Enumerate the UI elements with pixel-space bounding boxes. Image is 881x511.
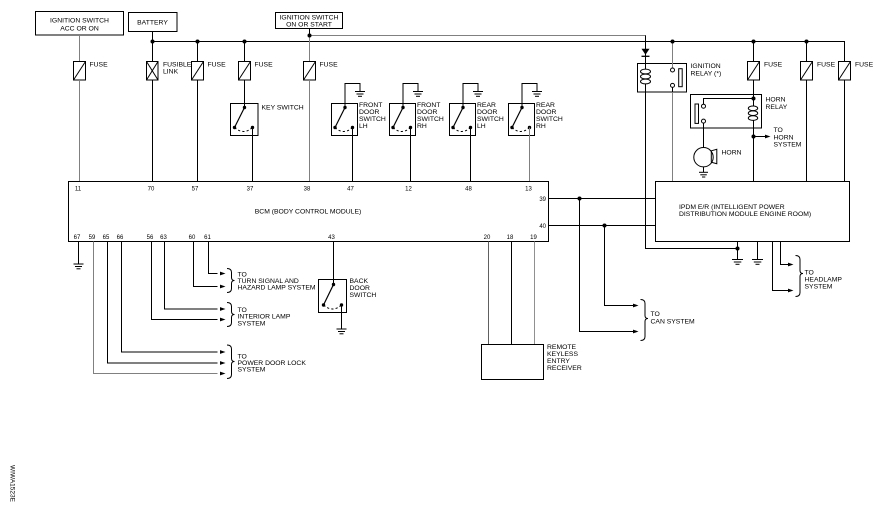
svg-text:DISTRIBUTION MODULE ENGINE ROO: DISTRIBUTION MODULE ENGINE ROOM): [679, 211, 811, 218]
fuse F1: [74, 62, 86, 81]
wire F2 to BCM pin 57: [197, 80, 199, 182]
wire BCM pin 39 to IPDM: [549, 198, 656, 200]
svg-text:LH: LH: [359, 123, 368, 130]
key switch box: [231, 104, 259, 136]
brace headlamp group: [796, 256, 804, 297]
svg-text:FUSE: FUSE: [320, 62, 339, 69]
svg-text:37: 37: [247, 187, 254, 193]
svg-text:48: 48: [465, 187, 472, 193]
horn relay internal wire: [704, 99, 754, 105]
key switch contacts: [233, 106, 254, 129]
svg-text:HAZARD LAMP SYSTEM: HAZARD LAMP SYSTEM: [238, 285, 316, 292]
wire ignition on/start branch to ignition relay: [310, 36, 646, 64]
rear door switch LH box: [450, 104, 476, 136]
wire on/start down through bus to fuse F4: [309, 29, 311, 36]
svg-text:IGNITION SWITCH: IGNITION SWITCH: [280, 15, 339, 22]
svg-text:38: 38: [304, 187, 311, 193]
wire rear door switch LH to BCM pin 48: [470, 128, 472, 182]
svg-text:13: 13: [525, 187, 532, 193]
wire F1 to BCM pin 11: [79, 80, 81, 182]
wire from acc box to fuse F1: [79, 35, 81, 62]
wire bus to fuse F3: [244, 42, 246, 62]
wire F5 to horn relay: [753, 80, 755, 99]
arrowheads headlamp: [788, 263, 794, 293]
wire front door switch RH to BCM pin 12: [410, 128, 412, 182]
rear door switch RH box: [509, 104, 535, 136]
wire pin40 branch to CAN: [605, 226, 635, 306]
svg-text:11: 11: [75, 187, 82, 193]
wire BCM pin 59 to power door lock: [94, 242, 218, 374]
svg-text:DOOR: DOOR: [359, 109, 379, 116]
svg-text:DOOR: DOOR: [417, 109, 437, 116]
svg-text:57: 57: [192, 187, 199, 193]
horn relay box: [691, 95, 762, 129]
brace power door lock group: [227, 345, 235, 379]
svg-text:FUSE: FUSE: [764, 62, 783, 69]
wire F6 to IPDM: [806, 80, 808, 182]
svg-text:18: 18: [507, 235, 514, 241]
arrowheads left groups: [220, 272, 226, 376]
fusible link: [147, 62, 159, 81]
BCM pin numbers: [74, 187, 547, 242]
svg-text:19: 19: [530, 235, 537, 241]
ignition relay box: [638, 64, 687, 93]
ignition relay coil: [645, 64, 647, 70]
ground horn: [703, 167, 705, 172]
front door switch RH box: [390, 104, 416, 136]
svg-text:SYSTEM: SYSTEM: [774, 142, 802, 149]
svg-text:ENTRY: ENTRY: [547, 358, 570, 365]
wire battery down: [152, 32, 154, 62]
wire BCM pin 20 to receiver: [488, 242, 490, 345]
svg-text:REAR: REAR: [536, 102, 555, 109]
svg-text:65: 65: [103, 235, 110, 241]
svg-text:HORN: HORN: [722, 149, 742, 156]
wire IPDM to headlamp top: [781, 242, 790, 265]
svg-text:67: 67: [74, 235, 81, 241]
ground rear door switch RH: [522, 84, 537, 108]
svg-text:WIWA1523E: WIWA1523E: [9, 465, 16, 503]
wire BCM pin 43 to back door switch: [333, 242, 335, 285]
brace turn signal group: [227, 269, 235, 293]
wire BCM pin 66 to power door lock: [122, 242, 218, 353]
svg-text:FUSE: FUSE: [255, 62, 274, 69]
wire BCM pin 65 to power door lock: [108, 242, 218, 364]
wire F3 to key switch: [244, 80, 246, 108]
svg-text:KEY SWITCH: KEY SWITCH: [262, 105, 304, 112]
svg-text:ON OR START: ON OR START: [286, 22, 332, 29]
box battery: [129, 13, 178, 32]
brace interior lamp group: [227, 303, 235, 327]
brace CAN group: [641, 300, 649, 341]
svg-text:56: 56: [147, 235, 154, 241]
wire ignition relay contact to IPDM: [672, 92, 674, 182]
svg-text:TO: TO: [805, 270, 814, 277]
junction dot horn system: [752, 135, 756, 139]
svg-text:HORN: HORN: [774, 134, 794, 141]
svg-text:KEYLESS: KEYLESS: [547, 351, 578, 358]
wire horn relay to horn: [703, 128, 705, 148]
svg-text:63: 63: [160, 235, 167, 241]
junction dot horn relay top: [752, 97, 756, 101]
wire BCM pin 61 to turn signal: [209, 242, 218, 274]
svg-text:47: 47: [347, 187, 354, 193]
diode triangle: [642, 49, 650, 55]
svg-text:SWITCH: SWITCH: [477, 116, 504, 123]
svg-text:60: 60: [189, 235, 196, 241]
ground rear door switch LH: [463, 84, 478, 108]
box ignition switch acc or on: [36, 12, 124, 36]
svg-text:REAR: REAR: [477, 102, 496, 109]
svg-text:20: 20: [484, 235, 491, 241]
svg-text:BCM (BODY CONTROL MODULE): BCM (BODY CONTROL MODULE): [255, 209, 362, 216]
ground back door switch: [341, 305, 343, 329]
svg-text:SWITCH: SWITCH: [359, 116, 386, 123]
svg-text:CAN SYSTEM: CAN SYSTEM: [651, 318, 696, 325]
svg-text:FRONT: FRONT: [359, 102, 382, 109]
ground front door switch RH: [403, 84, 418, 108]
front door switch LH box: [332, 104, 358, 136]
svg-text:SWITCH: SWITCH: [417, 116, 444, 123]
fuse F6: [801, 62, 813, 81]
wire BCM pin 40 to IPDM: [549, 225, 656, 227]
svg-text:TO: TO: [651, 311, 660, 318]
svg-text:IPDM E/R (INTELLIGENT POWER: IPDM E/R (INTELLIGENT POWER: [679, 204, 785, 211]
ground BCM pin 67: [78, 242, 80, 265]
horn relay contact: [702, 104, 706, 108]
wire fusible link to BCM pin 70: [152, 80, 154, 182]
svg-text:LH: LH: [477, 123, 486, 130]
svg-text:FUSE: FUSE: [855, 62, 874, 69]
svg-text:12: 12: [405, 187, 412, 193]
back door switch box: [319, 280, 347, 313]
junction dots CAN: [578, 197, 639, 334]
wire bus to fuse F6: [806, 42, 808, 62]
svg-text:DOOR: DOOR: [477, 109, 497, 116]
junction dots bus: [151, 34, 809, 44]
bus battery horizontal: [153, 42, 845, 62]
svg-text:59: 59: [89, 235, 96, 241]
wire front door switch LH to BCM pin 47: [352, 128, 354, 182]
svg-text:SWITCH: SWITCH: [350, 292, 377, 299]
wire bus to fuse F5: [753, 42, 755, 62]
svg-text:IGNITION SWITCH: IGNITION SWITCH: [50, 18, 109, 25]
svg-text:RH: RH: [536, 123, 546, 130]
horn: [694, 148, 713, 167]
wire bus to fuse F2: [197, 42, 199, 62]
remote keyless entry receiver box: [482, 345, 544, 380]
box ignition switch on or start: [276, 13, 343, 29]
arrowhead to horn system: [765, 135, 771, 139]
fuse F5: [748, 62, 760, 81]
svg-text:LINK: LINK: [163, 68, 179, 75]
svg-text:FRONT: FRONT: [417, 102, 440, 109]
svg-text:RECEIVER: RECEIVER: [547, 365, 582, 372]
svg-text:SYSTEM: SYSTEM: [805, 284, 833, 291]
wire BCM pin 18 to receiver: [511, 242, 513, 345]
wire rear door switch RH to BCM pin 13: [529, 128, 531, 182]
wire horn relay coil to IPDM: [753, 128, 755, 182]
svg-text:RH: RH: [417, 123, 427, 130]
wire key switch to BCM pin 37: [252, 128, 254, 182]
svg-text:SYSTEM: SYSTEM: [238, 367, 266, 374]
svg-text:RELAY: RELAY: [766, 104, 788, 111]
wire pin39 branch to CAN: [580, 199, 635, 332]
fuse F3: [239, 62, 251, 81]
wire BCM pin 56 to interior lamp: [152, 242, 218, 320]
svg-text:HEADLAMP: HEADLAMP: [805, 277, 843, 284]
fuse F7: [839, 62, 851, 81]
svg-text:BATTERY: BATTERY: [137, 20, 168, 27]
IPDM ground 2: [757, 242, 759, 260]
svg-text:43: 43: [328, 235, 335, 241]
wire BCM pin 63 to interior lamp: [165, 242, 218, 310]
svg-text:FUSE: FUSE: [90, 62, 109, 69]
wire IPDM to headlamp bottom: [773, 242, 790, 291]
svg-text:TO: TO: [774, 127, 783, 134]
wire ignition relay coil to ground join: [646, 92, 738, 249]
svg-text:DOOR: DOOR: [536, 109, 556, 116]
fuse F4: [304, 62, 316, 81]
svg-text:IGNITION: IGNITION: [691, 63, 721, 70]
diode arrow to ignition relay: [645, 36, 647, 64]
svg-text:RELAY (*): RELAY (*): [691, 70, 722, 77]
horn relay coil: [753, 99, 755, 107]
svg-text:61: 61: [204, 235, 211, 241]
svg-text:40: 40: [539, 224, 546, 230]
svg-text:SWITCH: SWITCH: [536, 116, 563, 123]
svg-text:REMOTE: REMOTE: [547, 344, 577, 351]
svg-text:FUSE: FUSE: [208, 62, 227, 69]
wire F7 to IPDM: [844, 80, 846, 182]
BCM box: [69, 182, 549, 242]
ignition relay contact: [672, 42, 674, 69]
wire F4 to BCM pin 38: [309, 80, 311, 182]
svg-text:70: 70: [148, 187, 155, 193]
svg-text:ACC OR ON: ACC OR ON: [60, 26, 99, 33]
wire BCM pin 60 to turn signal: [194, 242, 218, 287]
svg-text:39: 39: [539, 197, 546, 203]
fuse F2: [192, 62, 204, 81]
IPDM ground 1: [737, 242, 739, 260]
wire to horn system arrow: [754, 136, 767, 138]
svg-text:HORN: HORN: [766, 97, 786, 104]
junction dot IPDM ground: [736, 247, 740, 251]
IPDM E/R box: [656, 182, 850, 242]
svg-text:66: 66: [117, 235, 124, 241]
ground front door switch LH: [345, 84, 360, 108]
wire BCM pin 19 to receiver: [534, 242, 536, 345]
svg-text:FUSE: FUSE: [817, 62, 836, 69]
svg-text:SYSTEM: SYSTEM: [238, 320, 266, 327]
